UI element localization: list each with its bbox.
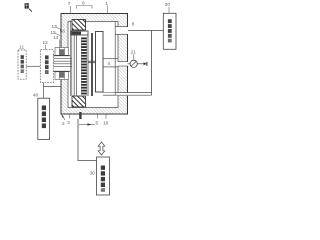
connector L1-L2 — [26, 65, 40, 67]
substrate thick line — [91, 33, 93, 96]
holder tall plate — [96, 32, 104, 93]
figure mark top-left — [25, 3, 32, 11]
holder arm to right wall — [103, 58, 118, 60]
svg-text:30: 30 — [90, 171, 96, 176]
chamber outer outline — [61, 14, 128, 115]
svg-text:21: 21 — [131, 49, 137, 54]
feed lines from matching box to chamber — [54, 58, 73, 60]
double-headed transfer arrow — [98, 142, 105, 155]
bottom dark block — [72, 96, 86, 107]
svg-text:11: 11 — [19, 44, 24, 49]
svg-text:13: 13 — [52, 24, 58, 29]
svg-text:14: 14 — [53, 35, 59, 40]
svg-text:10: 10 — [103, 121, 109, 126]
box L2 dashed — [40, 50, 53, 83]
svg-text:40: 40 — [33, 93, 39, 98]
svg-text:20: 20 — [165, 2, 171, 7]
chamber inner outline — [68, 22, 118, 108]
chamber wall hatch bands — [61, 14, 128, 22]
heater ladder stack — [81, 37, 86, 96]
svg-text:12: 12 — [43, 40, 49, 45]
vertical gas branch — [151, 31, 153, 96]
bottom wall leaders — [62, 115, 65, 120]
exhaust pipe gap through right wall bottom — [118, 92, 129, 95]
target thin plate — [71, 31, 88, 35]
svg-text:56: 56 — [60, 29, 66, 34]
gauge — [128, 54, 148, 67]
L2 to L3 chain and wall branch — [43, 83, 45, 99]
svg-text:4: 4 — [107, 61, 110, 67]
bottom feedthrough flange — [53, 71, 70, 79]
svg-text:8: 8 — [132, 22, 135, 27]
gas line to supply box — [128, 30, 163, 32]
backing plate vertical lines — [69, 21, 71, 97]
top feedthrough flange — [53, 48, 70, 56]
svg-text:5: 5 — [96, 120, 99, 125]
box L1 dashed — [18, 50, 26, 79]
svg-text:7: 7 — [68, 1, 71, 6]
bracket between substrate and holder — [88, 60, 96, 62]
conveyor line down to box B — [78, 119, 97, 161]
svg-text:2: 2 — [62, 121, 65, 126]
svg-text:1: 1 — [105, 1, 108, 6]
box R solid (gas supply) — [163, 13, 176, 49]
box L3 solid — [38, 98, 50, 139]
svg-text:6: 6 — [82, 1, 85, 6]
inner vertical line a — [87, 34, 89, 97]
left wall port opening — [60, 56, 69, 71]
gas pipe gap through right wall (top) — [118, 27, 129, 34]
inner liner line right — [114, 21, 116, 95]
gauge pipe gap through right wall — [118, 62, 129, 66]
liner bottom segment — [103, 94, 115, 96]
pipe walls top — [115, 26, 128, 28]
bottom feedthrough pin — [79, 112, 81, 119]
top dark block (magnet) — [72, 20, 86, 31]
box B solid (transfer) — [97, 157, 110, 195]
svg-text:3: 3 — [67, 120, 70, 125]
